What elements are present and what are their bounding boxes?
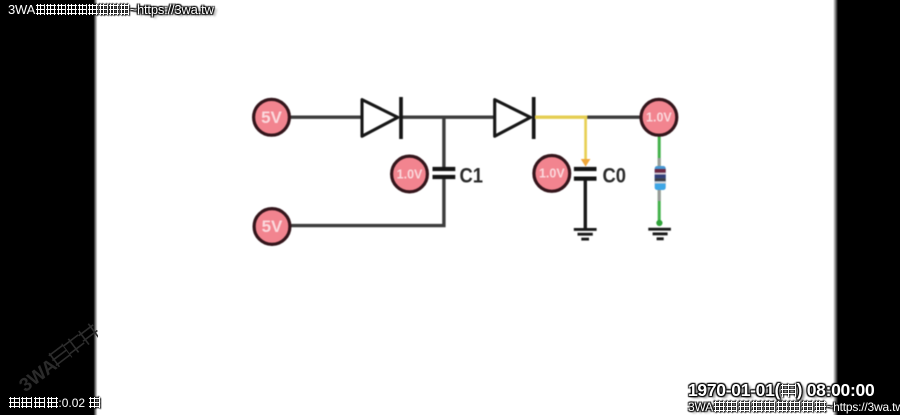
svg-text:C1: C1 bbox=[460, 165, 484, 188]
wire: D1 cathode to D2 anode (through node A) bbox=[401, 115, 495, 118]
wire: C0 bottom plate to ground bbox=[584, 180, 587, 229]
svg-text:1.0V: 1.0V bbox=[539, 167, 565, 181]
voltage label 1.0V (at C0) bbox=[534, 156, 570, 192]
ground (below C0) bbox=[574, 229, 597, 239]
svg-text:5V: 5V bbox=[262, 217, 283, 236]
voltage label 1.0V (at C1) bbox=[392, 156, 428, 192]
voltage label 1.0V (right, at R1) bbox=[641, 99, 677, 135]
bottom-right watermark text bbox=[688, 400, 900, 414]
bottom-left load-time text bbox=[8, 396, 101, 410]
svg-text:5V: 5V bbox=[261, 108, 282, 127]
wire: yellow net, D2 cathode to node B and down to C0 (highlighted) bbox=[535, 115, 587, 118]
top-left watermark text bbox=[8, 2, 214, 17]
capacitor C0 bbox=[574, 169, 597, 179]
svg-text:1.0V: 1.0V bbox=[397, 167, 423, 181]
voltage source V1 (5V, top) bbox=[254, 99, 290, 135]
wire: top 5V source to diode D1 anode bbox=[289, 115, 361, 118]
resistor R1 leads (gray) bbox=[658, 158, 661, 201]
svg-text:1.0V: 1.0V bbox=[646, 111, 672, 125]
wire: C1 bottom plate down and left to bottom 5V source bbox=[290, 178, 444, 226]
resistor R1 body with bands bbox=[655, 166, 666, 190]
bottom-right timestamp bbox=[688, 380, 874, 401]
svg-text:C0: C0 bbox=[603, 165, 627, 188]
current arrow into C0 (orange) bbox=[581, 159, 591, 167]
diagonal gray watermark on left bar bbox=[15, 322, 105, 398]
voltage source V2 (5V, bottom) bbox=[254, 209, 290, 245]
left black pillarbox bar bbox=[0, 0, 98, 415]
right black pillarbox bar bbox=[833, 0, 900, 415]
diode D1 bbox=[362, 97, 401, 139]
wire: node B to right 1.0V label circle bbox=[586, 115, 642, 118]
wire: green net, right 1.0V circle down through resistor R1 to ground bbox=[658, 135, 661, 222]
diode D2 bbox=[495, 97, 534, 139]
ground (below resistor R1) bbox=[648, 229, 671, 239]
capacitor C1 bbox=[433, 169, 456, 177]
wire: node A down to capacitor C1 top plate bbox=[442, 117, 445, 168]
node: green junction dot above ground bbox=[656, 220, 662, 226]
